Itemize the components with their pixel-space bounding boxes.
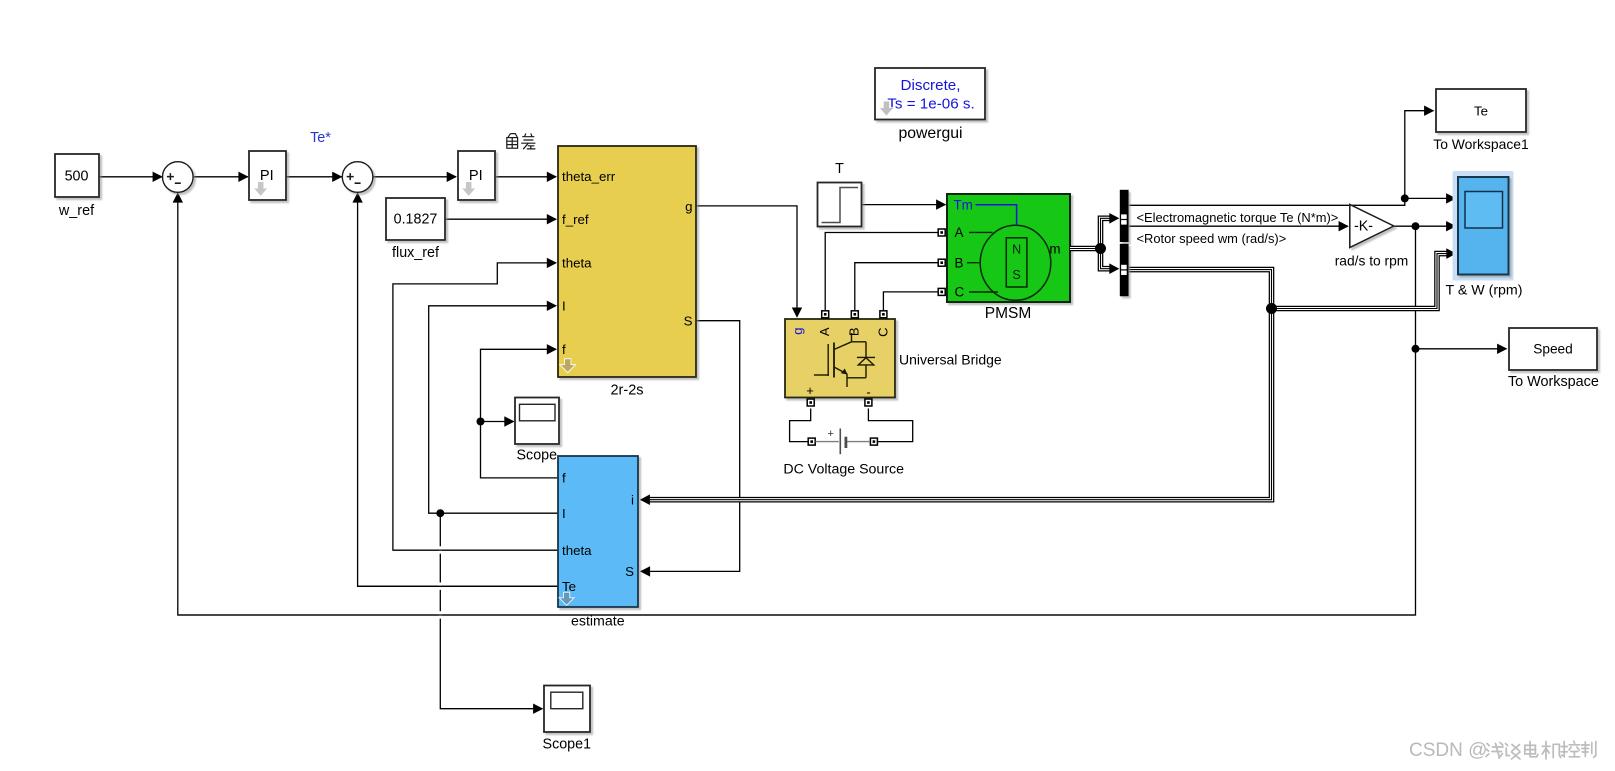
bus wire: selector2 out down	[1129, 270, 1272, 309]
block To Workspace Speed	[1509, 328, 1597, 370]
svg-text:Ts = 1e-06 s.: Ts = 1e-06 s.	[887, 96, 974, 113]
wire: I branch down to Scope1	[440, 513, 542, 709]
svg-text:S: S	[684, 313, 693, 328]
svg-text:Scope1: Scope1	[543, 737, 592, 753]
svg-text:m: m	[1049, 241, 1060, 256]
svg-text:+: +	[827, 428, 833, 440]
svg-text:500: 500	[65, 169, 89, 185]
sum junction 2	[342, 162, 373, 193]
junction dot m	[1095, 243, 1106, 254]
PMSM motor circle with N S magnet	[980, 225, 1051, 300]
svg-text:+: +	[806, 383, 814, 398]
Scope screen	[520, 404, 556, 421]
wire: bus selector out1 Te signal to workspace and scope	[1129, 111, 1434, 206]
block estimate subsystem	[558, 456, 638, 607]
svg-text:DC Voltage Source: DC Voltage Source	[783, 461, 904, 477]
svg-text:-: -	[866, 385, 870, 400]
bus wire: junction to estimate i	[648, 309, 1272, 500]
wire: PI1 to 2r-2s theta_err	[495, 176, 557, 178]
bus wire: junction up to bus selector in1	[1101, 218, 1113, 248]
wire: 2r-2s S to estimate S	[641, 321, 740, 572]
svg-text:Speed: Speed	[1533, 342, 1573, 357]
wire: sum2 to PI1	[373, 176, 456, 178]
block flux_ref constant 0.1827	[386, 198, 445, 240]
svg-text:Tm: Tm	[954, 198, 973, 213]
bus wire: junction to scope in3	[1272, 254, 1449, 309]
svg-text:Discrete,: Discrete,	[901, 77, 961, 94]
wire: sum1 to PI	[193, 176, 248, 178]
2r-2s port labels	[562, 169, 693, 357]
PMSM port labels	[954, 198, 1061, 300]
svg-text:<Rotor speed wm (rad/s)>: <Rotor speed wm (rad/s)>	[1137, 231, 1287, 246]
wire: estimate f to 2r-2s f	[481, 349, 559, 478]
svg-text:B: B	[846, 328, 861, 337]
svg-text:estimate: estimate	[571, 614, 625, 630]
svg-text:S: S	[625, 564, 634, 579]
svg-text:To Workspace1: To Workspace1	[1433, 136, 1529, 152]
svg-text:f: f	[562, 342, 566, 357]
svg-text:f: f	[562, 471, 566, 486]
svg-text:<Electromagnetic torque Te (N*: <Electromagnetic torque Te (N*m)>	[1137, 210, 1339, 225]
block PMSM	[947, 194, 1070, 302]
battery leads	[816, 441, 871, 443]
svg-text:2r-2s: 2r-2s	[610, 383, 643, 399]
wire: step T to PMSM Tm	[862, 204, 946, 206]
svg-text:powergui: powergui	[898, 125, 962, 142]
estimate badge arrow	[559, 592, 574, 605]
svg-text:A: A	[955, 225, 964, 240]
svg-text:-K-: -K-	[1354, 219, 1373, 235]
block 2r-2s subsystem	[558, 146, 696, 377]
block Universal Bridge	[785, 319, 895, 398]
bridge IGBT and diode icon	[814, 333, 875, 387]
wire: PI to sum2	[286, 176, 342, 178]
bus selector bar 1	[1120, 190, 1129, 242]
wire: Te feedback estimate to sum2	[358, 193, 558, 587]
wire: branch to Speed workspace	[1416, 348, 1507, 350]
arrow into sum2 bottom	[352, 192, 362, 202]
svg-text:g: g	[685, 199, 692, 214]
2r-2s badge arrow	[560, 359, 576, 373]
Scope1 screen	[551, 692, 583, 709]
svg-text:I: I	[562, 299, 566, 314]
block PI controller 2	[458, 151, 495, 200]
wire: PMSM C to bridge C	[883, 292, 938, 311]
svg-text:theta: theta	[562, 256, 592, 271]
battery plates	[839, 429, 841, 455]
svg-text:T: T	[835, 161, 844, 177]
bridge rotated port labels g A B C	[790, 327, 890, 337]
wire: w_ref to sum1	[99, 176, 162, 178]
svg-text:C: C	[955, 285, 965, 300]
svg-text:w_ref: w_ref	[58, 203, 95, 219]
estimate port labels	[562, 471, 634, 594]
wire: bridge - to DC source	[868, 409, 912, 442]
svg-text:theta: theta	[562, 543, 592, 558]
crossing gaps on Scope1 vertical	[439, 546, 443, 553]
svg-text:f_ref: f_ref	[562, 212, 589, 227]
label jiaocha (angle difference), hand-drawn glyphs	[507, 133, 536, 149]
bridge top port squares A B C	[822, 311, 887, 318]
junction dot bus	[1266, 303, 1277, 314]
powergui badge arrow	[879, 101, 894, 116]
wire: bus selector out2 wm to gain	[1129, 225, 1348, 227]
svg-text:g: g	[790, 328, 805, 335]
wire: f branch to Scope	[481, 421, 514, 423]
svg-text:Universal Bridge: Universal Bridge	[899, 352, 1002, 368]
wire: feedback rpm to sum1 (down, left, up)	[178, 193, 1416, 615]
block step T	[818, 183, 862, 227]
block PI controller 1	[249, 151, 286, 200]
PMSM Tm blue line	[976, 205, 1017, 226]
step waveform glyph	[822, 188, 859, 223]
wire: flux_ref to 2r-2s f_ref	[446, 218, 557, 220]
svg-text:N: N	[1012, 242, 1021, 256]
svg-text:Scope: Scope	[517, 448, 558, 464]
svg-text:theta_err: theta_err	[562, 169, 616, 184]
sum junction 1	[163, 162, 194, 193]
wire: estimate theta to 2r-2s theta	[393, 263, 558, 550]
svg-text:Te*: Te*	[310, 130, 331, 146]
bus selector bar 2	[1120, 244, 1129, 296]
DC voltage source battery	[808, 438, 877, 445]
svg-text:S: S	[1012, 268, 1020, 282]
svg-text:flux_ref: flux_ref	[392, 245, 439, 261]
block Scope	[515, 398, 559, 445]
wire: PMSM A to bridge A	[825, 233, 938, 311]
svg-text:i: i	[631, 493, 634, 508]
wire: PMSM B to bridge B	[855, 263, 939, 311]
bus wire: junction down to bus selector in2	[1101, 249, 1113, 269]
svg-text:T & W (rpm): T & W (rpm)	[1446, 283, 1523, 299]
svg-text:rad/s to rpm: rad/s to rpm	[1335, 254, 1409, 269]
gain rad/s to rpm	[1350, 205, 1394, 248]
block Scope1	[544, 686, 590, 733]
svg-text:B: B	[955, 256, 964, 271]
svg-text:Te: Te	[1474, 104, 1488, 119]
svg-text:PMSM: PMSM	[985, 305, 1032, 322]
block Scope T & W (selected, glow)	[1453, 171, 1514, 281]
svg-text:0.1827: 0.1827	[394, 211, 438, 227]
bridge bottom port squares + -	[807, 399, 872, 406]
PMSM left port squares	[938, 229, 945, 295]
wire: bridge + to DC source	[790, 409, 811, 442]
svg-text:To Workspace: To Workspace	[1508, 374, 1599, 390]
block w_ref constant 500	[55, 154, 99, 197]
block To Workspace1 Te	[1436, 89, 1526, 132]
block powergui	[875, 68, 985, 120]
wire: 2r-2s g to bridge g	[696, 206, 797, 317]
svg-text:C: C	[875, 328, 890, 337]
svg-text:A: A	[817, 327, 832, 336]
bus wire: PMSM m to junction	[1070, 246, 1101, 252]
wire: estimate I to 2r-2s I	[429, 306, 558, 513]
arrow into sum1 bottom	[173, 192, 183, 202]
svg-text:I: I	[562, 506, 566, 521]
svg-text:CSDN @: CSDN @	[1409, 740, 1487, 761]
wire: gain out to scope in2	[1394, 225, 1456, 227]
